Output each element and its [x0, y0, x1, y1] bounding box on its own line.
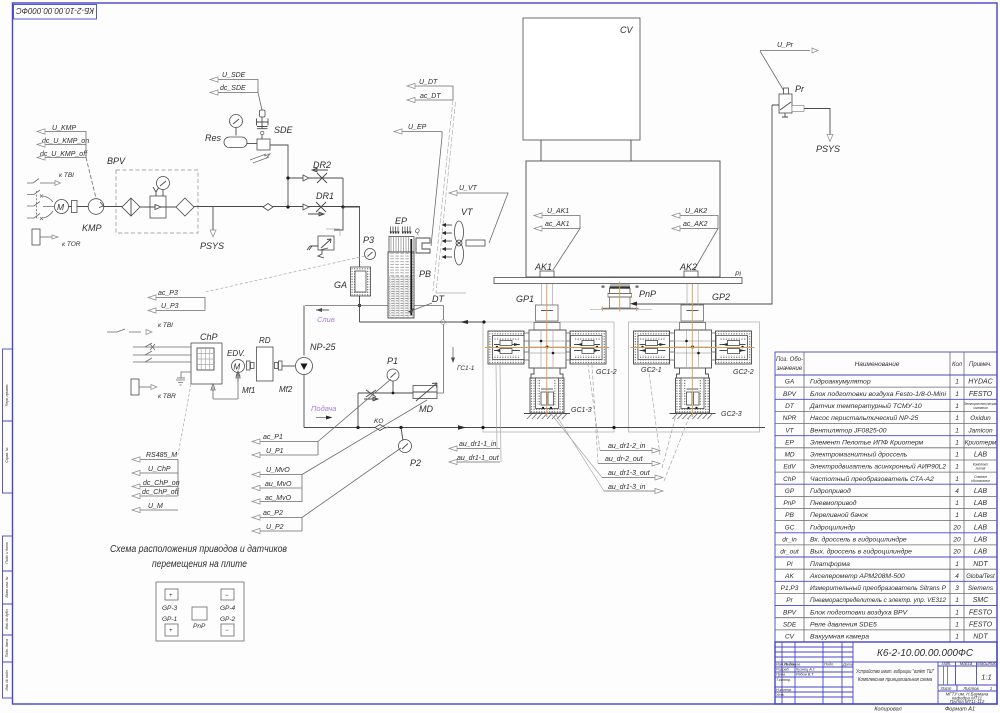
svg-text:U_AK1: U_AK1	[547, 208, 569, 215]
svg-text:au_dr1-2_in: au_dr1-2_in	[608, 443, 645, 450]
svg-text:Mf2: Mf2	[279, 385, 293, 394]
svg-text:Платформа: Платформа	[810, 561, 850, 568]
svg-text:№ докум.: № докум.	[784, 663, 801, 667]
svg-text:EdV: EdV	[783, 464, 796, 471]
svg-text:Jamicon: Jamicon	[967, 427, 993, 434]
pump NP-25	[296, 342, 337, 428]
labels MvO stack	[252, 400, 427, 504]
svg-text:Подп. и дата: Подп. и дата	[5, 542, 9, 563]
svg-text:LAB: LAB	[974, 524, 988, 531]
svg-text:NDT: NDT	[973, 561, 988, 568]
svg-text:au_dr-2_out: au_dr-2_out	[605, 456, 644, 463]
svg-text:М: М	[57, 202, 65, 212]
svg-text:Дата: Дата	[842, 663, 853, 667]
accelerometer AK1 labels	[534, 208, 580, 277]
svg-text:Гидропривод: Гидропривод	[810, 487, 851, 495]
svg-text:LAB: LAB	[974, 549, 988, 556]
svg-text:Пневмораспределитель с электр.: Пневмораспределитель с электр. упр. VE31…	[810, 596, 946, 604]
ground	[524, 413, 570, 415]
svg-text:1: 1	[955, 439, 959, 446]
svg-text:ac_P2: ac_P2	[263, 510, 283, 517]
svg-text:U_VT: U_VT	[459, 185, 478, 192]
svg-text:KMP: KMP	[82, 223, 102, 233]
svg-text:DT: DT	[785, 403, 795, 410]
svg-text:Листов: Листов	[962, 686, 979, 691]
к TBR lower	[131, 379, 176, 400]
svg-text:Справ. №: Справ. №	[5, 447, 9, 463]
svg-text:Разраб.: Разраб.	[776, 668, 790, 672]
platform Pl	[494, 271, 742, 284]
svg-text:U_Pr: U_Pr	[777, 42, 794, 49]
svg-text:U_P1: U_P1	[266, 448, 284, 455]
svg-text:dc_U_KMP_on: dc_U_KMP_on	[42, 138, 89, 145]
svg-text:Блок подготовки воздуха Festo-: Блок подготовки воздуха Festo-1/8-0-Mini	[810, 390, 946, 398]
svg-text:1: 1	[955, 512, 959, 519]
svg-text:Переливной бачок: Переливной бачок	[810, 511, 869, 519]
svg-text:U_P3: U_P3	[161, 303, 179, 310]
svg-text:GP-4: GP-4	[220, 605, 236, 612]
svg-text:dc_SDE: dc_SDE	[220, 85, 246, 92]
svg-text:1:1: 1:1	[981, 673, 991, 682]
svg-text:GC2-2: GC2-2	[733, 369, 754, 376]
svg-text:Перв. примен.: Перв. примен.	[5, 384, 9, 407]
svg-text:RS485_M: RS485_M	[146, 452, 177, 459]
accumulator GA	[334, 267, 371, 296]
svg-text:NDT: NDT	[973, 634, 988, 641]
svg-text:BPV: BPV	[783, 391, 797, 398]
svg-text:BPV: BPV	[783, 609, 797, 616]
svg-text:3: 3	[955, 585, 959, 592]
svg-text:HYDAC: HYDAC	[968, 379, 993, 386]
svg-text:GC1-2: GC1-2	[596, 369, 617, 376]
svg-text:GP1: GP1	[516, 294, 534, 304]
svg-text:Гидроцилиндр: Гидроцилиндр	[810, 523, 855, 531]
svg-text:Масса: Масса	[960, 661, 973, 666]
svg-text:1: 1	[955, 561, 959, 568]
air preparation block BPV	[104, 156, 360, 233]
svg-text:NP-25: NP-25	[310, 342, 337, 352]
svg-text:4: 4	[955, 488, 959, 495]
three-phase contacts to motor	[27, 190, 54, 220]
svg-text:VT: VT	[461, 207, 474, 217]
svg-text:1: 1	[955, 597, 959, 604]
signal labels U_KMP group	[37, 125, 96, 198]
lower neck	[531, 368, 563, 378]
svg-text:P2: P2	[410, 458, 421, 468]
svg-text:Гидроаккумулятор: Гидроаккумулятор	[810, 378, 871, 386]
cylinder left	[488, 331, 524, 364]
svg-text:Res: Res	[205, 133, 222, 143]
svg-text:FESTO: FESTO	[969, 609, 993, 616]
labels U_DT ac_DT	[407, 79, 456, 293]
svg-text:литая: литая	[975, 467, 986, 471]
svg-text:AK2: AK2	[679, 262, 697, 272]
svg-text:Pr: Pr	[786, 597, 793, 604]
svg-text:Вых. дроссель в гидроцилиндре: Вых. дроссель в гидроцилиндре	[810, 548, 912, 556]
accelerometer AK2 labels	[672, 208, 718, 277]
svg-text:Кузнец А.Г.: Кузнец А.Г.	[796, 668, 816, 672]
svg-text:ac_AK1: ac_AK1	[545, 221, 570, 228]
Peltier element EP	[389, 216, 430, 253]
svg-text:1: 1	[955, 379, 959, 386]
svg-text:перемещения на плите: перемещения на плите	[152, 559, 247, 570]
svg-text:+: +	[169, 593, 173, 599]
svg-text:GC2-3: GC2-3	[721, 411, 742, 418]
svg-text:dr_in: dr_in	[782, 537, 797, 544]
svg-text:Масштаб: Масштаб	[977, 661, 997, 666]
svg-text:Лист: Лист	[940, 686, 952, 691]
svg-text:AK1: AK1	[534, 262, 552, 272]
svg-text:20: 20	[952, 524, 961, 531]
mini plate diagram	[156, 582, 244, 641]
svg-text:U_MvO: U_MvO	[266, 467, 290, 474]
svg-text:1: 1	[955, 452, 959, 459]
svg-text:U_P2: U_P2	[266, 524, 284, 531]
svg-text:Инв. № дубл.: Инв. № дубл.	[5, 609, 9, 630]
svg-text:Кол: Кол	[952, 362, 963, 368]
svg-text:Схема расположения приводов и: Схема расположения приводов и датчиков	[110, 544, 287, 555]
motor EdV	[227, 349, 255, 395]
svg-text:P1: P1	[387, 356, 398, 366]
svg-text:GA: GA	[785, 379, 794, 386]
svg-text:Электромагнитный дроссель: Электромагнитный дроссель	[810, 451, 908, 459]
svg-text:1: 1	[955, 476, 959, 483]
svg-text:Вакуумная камера: Вакуумная камера	[810, 634, 869, 641]
svg-text:Вх. дроссель в гидроцилиндре: Вх. дроссель в гидроцилиндре	[810, 536, 907, 544]
svg-text:1: 1	[955, 391, 959, 398]
svg-text:1: 1	[955, 622, 959, 629]
svg-text:Блок подготовки воздуха BPV: Блок подготовки воздуха BPV	[810, 608, 909, 616]
svg-text:к ТВI: к ТВI	[158, 322, 173, 329]
svg-text:LAB: LAB	[974, 537, 988, 544]
svg-text:ac_P1: ac_P1	[263, 434, 283, 441]
svg-text:GP-1: GP-1	[162, 616, 178, 623]
svg-text:1: 1	[955, 415, 959, 422]
drain line to tank	[304, 304, 445, 393]
svg-text:Siemens: Siemens	[968, 585, 994, 592]
signal labels U_SDE group	[210, 72, 262, 110]
svg-text:GlobalTest: GlobalTest	[966, 574, 995, 580]
PSYS drop	[200, 207, 224, 252]
svg-text:ac_P3: ac_P3	[158, 290, 178, 297]
svg-text:LAB: LAB	[974, 452, 988, 459]
left margin boxes	[3, 349, 13, 698]
svg-text:Электродвигатель асинхронный: Электродвигатель асинхронный АИР90L2	[810, 463, 946, 471]
title block	[775, 642, 997, 713]
svg-text:U_KMP: U_KMP	[52, 125, 76, 132]
gauge P3	[205, 207, 376, 306]
svg-text:Примеч.: Примеч.	[969, 362, 992, 368]
svg-text:VT: VT	[785, 427, 794, 434]
svg-text:U_SDE: U_SDE	[222, 72, 246, 79]
svg-text:Пров.: Пров.	[776, 673, 786, 677]
labels au_dr1-1	[449, 364, 501, 465]
svg-text:NPR: NPR	[783, 415, 797, 422]
svg-text:Слив: Слив	[317, 315, 335, 324]
svg-text:значение: значение	[776, 366, 803, 372]
svg-text:Утв.: Утв.	[776, 693, 785, 697]
svg-text:GC1-3: GC1-3	[571, 407, 592, 414]
svg-text:PSYS: PSYS	[200, 241, 224, 251]
svg-text:EDV.: EDV.	[227, 349, 245, 358]
svg-text:GC: GC	[785, 524, 795, 531]
svg-text:dc_ChP_off: dc_ChP_off	[142, 489, 180, 496]
svg-text:к TOR: к TOR	[62, 241, 81, 248]
svg-text:DT: DT	[432, 294, 445, 304]
svg-text:Н.контр.: Н.контр.	[776, 688, 792, 692]
throttle DR1 on main line	[263, 191, 360, 216]
motor M	[55, 200, 89, 214]
labels RS485 stack	[132, 452, 180, 513]
svg-text:Акселерометр АРМ208М-500: Акселерометр АРМ208М-500	[809, 573, 905, 580]
svg-text:ChP: ChP	[200, 332, 218, 342]
svg-text:Лит.: Лит.	[941, 661, 952, 666]
svg-text:Частотный преобразователь СТА-: Частотный преобразователь СТА-А2	[810, 475, 934, 483]
svg-text:LAB: LAB	[974, 512, 988, 519]
svg-text:MD: MD	[419, 404, 433, 414]
cylinder bottom	[530, 378, 564, 413]
svg-text:PSYS: PSYS	[816, 144, 840, 154]
label U_VT	[449, 185, 508, 243]
svg-text:Т.контр.: Т.контр.	[776, 678, 791, 682]
supply label	[311, 404, 336, 420]
svg-text:Рябов В.Т.: Рябов В.Т.	[796, 673, 814, 677]
svg-text:20: 20	[952, 549, 961, 556]
svg-text:Элемент Пелотье ИПФ Криотерм: Элемент Пелотье ИПФ Криотерм	[810, 439, 924, 446]
svg-text:SMC: SMC	[973, 597, 990, 604]
valve Pr	[630, 42, 840, 306]
layout note text	[110, 544, 287, 570]
svg-text:М: М	[234, 363, 241, 372]
svg-text:Комплексная принципиальная схе: Комплексная принципиальная схема	[858, 677, 932, 683]
labels ac_P2 U_P2	[252, 448, 401, 534]
svg-text:BPV: BPV	[107, 156, 126, 166]
svg-text:20: 20	[952, 537, 961, 544]
temperature sensor DT	[408, 293, 466, 313]
drain label	[316, 308, 335, 324]
svg-text:P1,P3: P1,P3	[781, 585, 799, 592]
svg-text:U_DT: U_DT	[419, 79, 438, 86]
label U_EP	[394, 124, 442, 246]
svg-text:PnP: PnP	[639, 289, 656, 299]
overflow tank PB	[388, 239, 431, 318]
throttle DR2 branch	[286, 160, 343, 207]
svg-text:U_EP: U_EP	[408, 124, 427, 131]
svg-text:au_dr1-1_out: au_dr1-1_out	[457, 455, 500, 462]
svg-text:KO: KO	[374, 418, 383, 425]
svg-text:PB: PB	[419, 269, 431, 279]
check valve KO	[374, 418, 389, 431]
svg-text:MD: MD	[784, 452, 794, 459]
svg-text:Oxidun: Oxidun	[970, 415, 991, 422]
svg-text:P3: P3	[363, 235, 374, 245]
supply main line	[304, 425, 765, 429]
gauge Res	[205, 115, 257, 148]
svg-text:ChP: ChP	[783, 476, 796, 483]
svg-text:обозначение: обозначение	[971, 479, 990, 483]
к ТВI arrow top	[27, 172, 74, 186]
svg-text:4: 4	[955, 573, 959, 580]
svg-text:Датчик температурный ТСМУ-10: Датчик температурный ТСМУ-10	[809, 402, 922, 410]
pneumatic actuator PnP	[590, 282, 656, 312]
svg-text:dc_ChP_on: dc_ChP_on	[143, 480, 180, 487]
svg-text:Pl: Pl	[735, 271, 741, 278]
svg-text:К6-2-10.00.00.000ФС: К6-2-10.00.00.000ФС	[877, 648, 974, 659]
chamber box	[526, 161, 720, 277]
svg-text:U_ChP: U_ChP	[148, 466, 171, 473]
svg-text:PB: PB	[785, 512, 794, 519]
svg-text:Измерительный преобразователь: Измерительный преобразователь Sitrans P	[810, 584, 946, 592]
svg-text:Mf1: Mf1	[242, 386, 255, 395]
svg-text:GC2-1: GC2-1	[641, 367, 662, 374]
svg-text:Pl: Pl	[787, 561, 793, 568]
labels ac_P3 U_P3	[148, 290, 205, 313]
relief valve P3	[307, 207, 343, 258]
svg-text:au_MvO: au_MvO	[265, 481, 292, 488]
svg-text:EP: EP	[785, 439, 794, 446]
svg-text:Наименование: Наименование	[855, 361, 900, 368]
gauge P2	[399, 428, 422, 469]
cylinder right	[570, 331, 606, 364]
magnetic throttle MD	[413, 383, 437, 414]
labels ac_P1 U_P1	[252, 379, 391, 458]
pressure switch SDE	[250, 110, 294, 207]
gauge P1	[358, 356, 413, 428]
svg-text:КБ-2-10.00.00.000ФС: КБ-2-10.00.00.000ФС	[15, 6, 94, 16]
hydraulic drive group GP1	[483, 284, 614, 432]
svg-text:AK: AK	[784, 573, 794, 580]
svg-text:Насос перистальтический NP-25: Насос перистальтический NP-25	[810, 414, 919, 422]
compressor KMP	[82, 199, 104, 233]
svg-text:компания: компания	[973, 406, 988, 410]
svg-text:GP-2: GP-2	[220, 616, 236, 623]
frequency converter ChP	[133, 332, 240, 455]
svg-text:GP: GP	[785, 488, 795, 495]
svg-text:U_AK2: U_AK2	[685, 208, 707, 215]
svg-text:SDE: SDE	[783, 622, 797, 629]
svg-text:−: −	[225, 628, 229, 634]
svg-text:PnP: PnP	[193, 623, 206, 630]
parts table	[775, 352, 997, 642]
svg-text:RD: RD	[259, 336, 271, 345]
svg-text:GP2: GP2	[712, 292, 730, 302]
svg-text:PnP: PnP	[783, 500, 796, 507]
svg-text:ac_DT: ac_DT	[420, 93, 441, 100]
labels au_dr right stack	[552, 365, 690, 494]
svg-text:EP: EP	[395, 216, 407, 226]
return line	[360, 296, 486, 324]
svg-text:au_dr1-1_in: au_dr1-1_in	[459, 441, 496, 448]
svg-text:au_dr1-3_in: au_dr1-3_in	[608, 484, 645, 491]
к TOR symbol	[32, 229, 81, 248]
svg-text:CV: CV	[620, 25, 633, 35]
svg-text:Взам. инв. №: Взам. инв. №	[5, 576, 9, 597]
svg-text:LAB: LAB	[974, 500, 988, 507]
svg-text:Подп.: Подп.	[824, 663, 834, 667]
svg-text:LAB: LAB	[974, 488, 988, 495]
svg-text:GA: GA	[334, 280, 347, 290]
svg-text:ac_AK2: ac_AK2	[683, 221, 708, 228]
svg-text:1: 1	[955, 609, 959, 616]
svg-text:1: 1	[955, 500, 959, 507]
svg-text:dr_out: dr_out	[780, 549, 800, 556]
svg-text:Пневмопривод: Пневмопривод	[810, 499, 857, 507]
svg-text:к ТВI: к ТВI	[59, 172, 74, 179]
к ТВI lower	[107, 322, 173, 335]
svg-text:Подп. дата: Подп. дата	[5, 639, 9, 658]
svg-text:ГС1-1: ГС1-1	[457, 365, 475, 372]
svg-text:Q: Q	[415, 229, 420, 235]
svg-text:FESTO: FESTO	[969, 622, 993, 629]
fan VT	[442, 207, 486, 265]
svg-text:1: 1	[955, 403, 959, 410]
svg-text:Устройство имит. вибрации "взл: Устройство имит. вибрации "взлёт ТШ"	[856, 668, 934, 675]
svg-text:U_M: U_M	[148, 503, 163, 510]
svg-text:1: 1	[955, 427, 959, 434]
svg-text:Инв. № подл.: Инв. № подл.	[5, 669, 9, 690]
svg-text:к TBR: к TBR	[158, 393, 176, 400]
gearbox RD	[257, 336, 296, 394]
svg-text:Формат А1: Формат А1	[945, 707, 975, 713]
svg-text:Вентилятор JF0825-00: Вентилятор JF0825-00	[810, 427, 887, 434]
svg-text:Pr: Pr	[795, 84, 805, 94]
svg-text:au_dr1-3_out: au_dr1-3_out	[608, 470, 651, 477]
svg-text:1: 1	[990, 686, 992, 691]
svg-text:Криотерм: Криотерм	[965, 439, 997, 446]
svg-text:+: +	[169, 628, 173, 634]
svg-text:DR1: DR1	[316, 191, 334, 201]
vacuum chamber CV	[523, 18, 640, 161]
svg-text:dc_U_KMP_off: dc_U_KMP_off	[40, 151, 88, 158]
svg-text:CV: CV	[785, 634, 795, 641]
svg-text:SDE: SDE	[274, 125, 294, 135]
svg-text:Копировал: Копировал	[874, 707, 901, 713]
svg-text:1: 1	[955, 634, 959, 641]
svg-text:GP-3: GP-3	[162, 605, 178, 612]
svg-text:1: 1	[955, 464, 959, 471]
svg-text:Группа МТ11-112: Группа МТ11-112	[950, 699, 985, 704]
svg-text:Поз. Обо-: Поз. Обо-	[776, 357, 803, 363]
stamp top-left mirrored doc number	[14, 5, 97, 20]
svg-text:Реле давления SDE5: Реле давления SDE5	[810, 621, 877, 629]
branch to GC1-1	[451, 347, 475, 372]
svg-text:ac_MvO: ac_MvO	[265, 495, 292, 502]
svg-text:FESTO: FESTO	[969, 391, 993, 398]
svg-text:−: −	[225, 593, 229, 599]
svg-text:Подача: Подача	[311, 404, 336, 413]
